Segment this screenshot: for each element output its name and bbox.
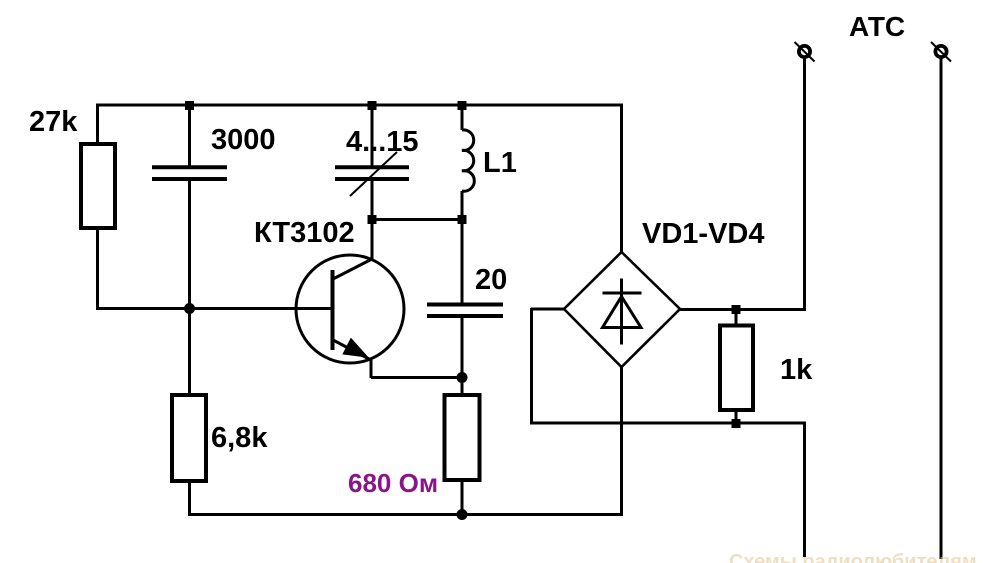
- svg-text:680 Ом: 680 Ом: [348, 468, 438, 498]
- svg-text:VD1-VD4: VD1-VD4: [642, 218, 765, 250]
- wire bridge right vertex horizontal: [679, 308, 806, 311]
- terminal ATC 2: [931, 42, 951, 62]
- diode bridge VD1-VD4: [564, 252, 680, 367]
- label 4...15: [346, 126, 419, 158]
- capacitor C 3000: [152, 167, 227, 179]
- label 3000: [211, 124, 276, 156]
- label 20: [475, 264, 507, 296]
- wire vertical through C 20: [461, 220, 464, 378]
- svg-text:АТС: АТС: [849, 11, 905, 42]
- capacitor C 20: [427, 305, 503, 317]
- terminal ATC 1: [795, 42, 815, 62]
- wire bridge left vertex loop: [531, 308, 565, 424]
- label L1: [483, 147, 517, 179]
- node junction base: [184, 303, 195, 314]
- wire top right corner down to bridge: [620, 104, 623, 253]
- label 1k: [780, 354, 813, 386]
- svg-text:Схемы радиолюбителям: Схемы радиолюбителям: [729, 551, 977, 563]
- capacitor C 4...15 variable: [335, 152, 409, 196]
- wire ATC line 1 vertical upper: [803, 58, 806, 311]
- node junction top of R 1k: [732, 305, 741, 314]
- wire vertical through C 3000: [188, 105, 191, 309]
- node junction bottom wire: [457, 509, 468, 520]
- wire vertical through R 680: [461, 378, 464, 515]
- svg-text:4...15: 4...15: [346, 126, 419, 158]
- resistor R3 680 Om: [445, 395, 480, 480]
- wire vertical through R 6,8k: [188, 309, 191, 515]
- node junction collector mid wire left: [368, 215, 377, 224]
- label 680 Om: [348, 468, 438, 498]
- watermark: [729, 551, 977, 563]
- svg-text:L1: L1: [483, 147, 517, 179]
- node junction top of C 4...15: [368, 101, 377, 110]
- wire vertical through C 4...15: [371, 105, 374, 220]
- svg-text:6,8k: 6,8k: [211, 422, 268, 454]
- wire bottom horizontal: [188, 513, 623, 516]
- wire collector vertical into transistor: [371, 219, 374, 260]
- wire emitter down and right: [371, 359, 462, 378]
- inductor L1: [462, 105, 474, 220]
- transistor Q1 KT3102: [296, 255, 404, 363]
- label 27k: [29, 106, 78, 138]
- node junction top of C 3000: [185, 101, 194, 110]
- label KT3102: [254, 217, 355, 249]
- wire bridge bottom vertex down: [620, 367, 623, 515]
- svg-text:КТ3102: КТ3102: [254, 217, 355, 249]
- node junction bottom of R 1k: [732, 419, 741, 428]
- label ATC: [849, 11, 905, 42]
- wire stub R1k top: [735, 309, 738, 328]
- resistor R2 6,8k: [172, 395, 206, 481]
- svg-text:3000: 3000: [211, 124, 276, 156]
- wire stub R1k bottom: [735, 408, 738, 423]
- wire top horizontal bus: [96, 104, 623, 107]
- label 6,8k: [211, 422, 268, 454]
- node junction bottom of L1: [458, 215, 467, 224]
- resistor R1 27k: [81, 144, 115, 228]
- wire bottom right horizontal: [530, 422, 806, 425]
- label VD1-VD4: [642, 218, 765, 250]
- node junction emitter: [457, 372, 468, 383]
- wire ATC line 1 vertical lower: [803, 422, 806, 557]
- svg-text:20: 20: [475, 264, 507, 296]
- svg-text:1k: 1k: [780, 354, 813, 386]
- wire left vertical through R 27k: [96, 104, 99, 310]
- wire base horizontal: [96, 307, 333, 310]
- node junction top of L1: [458, 101, 467, 110]
- resistor R4 1k: [720, 326, 753, 411]
- wire ATC line 2 vertical: [940, 58, 943, 559]
- wire collector mid horizontal: [372, 218, 462, 221]
- svg-text:27k: 27k: [29, 106, 78, 138]
